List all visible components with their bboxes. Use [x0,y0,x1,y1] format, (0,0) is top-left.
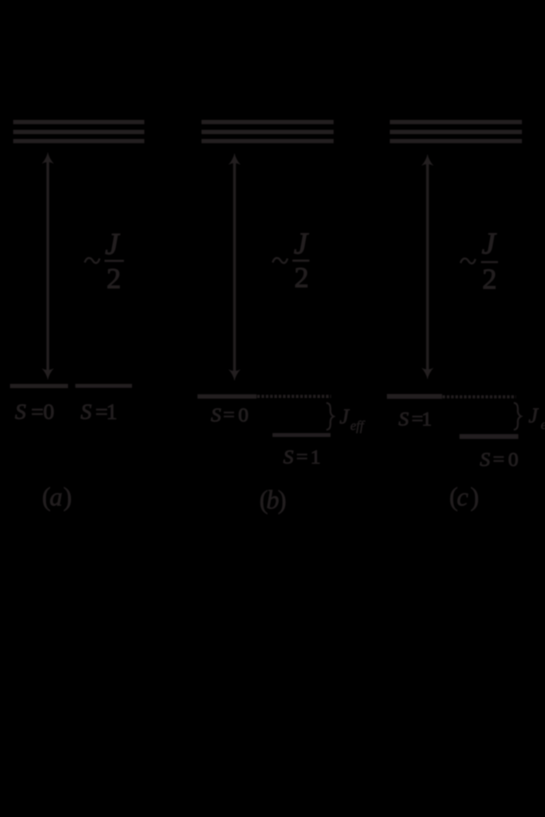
svg-text:S: S [15,399,26,424]
panel (b): text S = 1 [283,446,320,468]
svg-text:0: 0 [238,404,248,426]
panel (b): caption (b) [259,485,286,514]
svg-text:=: = [31,399,43,424]
svg-text:=: = [296,446,308,468]
svg-text:ef: ef [541,417,545,432]
svg-text:1: 1 [422,408,432,430]
panel (a): level S=1 [75,384,132,388]
svg-text:2: 2 [294,262,309,294]
panel (a): double-headed arrow [42,152,54,380]
panel (c): excited-state triplet levels [390,120,522,143]
panel (c): level S=1 [387,394,442,399]
svg-text:J: J [294,225,309,260]
panel (c): dotted extension of S=1 level [443,395,517,398]
panel (b): double-headed arrow [228,153,240,381]
svg-text:1: 1 [106,399,117,424]
panel (b): level S=1 [273,433,331,437]
panel (c): double-headed arrow [421,154,433,380]
panel (c): text S = 0 [480,449,518,471]
panel (b): level S=0 [198,394,257,398]
panel (c): label ~ J/2 [461,225,499,295]
panel (c): caption (c) [449,483,479,512]
svg-text:J: J [482,225,497,260]
panel (a): label ~ J/2 [85,226,124,295]
svg-text:S: S [211,404,221,426]
svg-text:2: 2 [482,264,497,296]
svg-text:=: = [223,404,235,426]
svg-text:2: 2 [107,263,122,295]
svg-text:1: 1 [310,446,320,468]
panel (c): text S = 1 [399,408,432,430]
panel (a): text S = 0 [15,399,54,424]
panel (a): text S = 1 [81,399,118,424]
svg-text:J: J [340,405,351,429]
svg-text:=: = [493,449,505,471]
panel (c): curly brace for Jeff [514,403,521,430]
svg-text:c: c [457,483,469,512]
panel (c): level S=0 [460,434,519,439]
svg-text:): ) [278,485,287,514]
svg-text:J: J [105,226,120,261]
panel (b): label ~ J/2 [273,225,310,294]
svg-text:S: S [283,446,293,468]
svg-text:S: S [81,399,92,424]
svg-text:0: 0 [508,449,518,471]
panel (b): excited-state triplet levels [202,120,334,143]
panel (a): caption (a) [42,483,72,512]
panel (b): curly brace for Jeff [326,403,333,430]
panel (a): excited-state triplet levels [13,120,144,143]
svg-text:): ) [470,483,479,512]
svg-text:eff: eff [350,418,366,433]
svg-text:J: J [529,404,540,428]
panel (b): dotted extension of S=0 level [257,395,331,398]
svg-text:S: S [399,408,409,430]
panel (c): label J_eff (clipped at right edge) [529,404,545,433]
svg-text:): ) [63,483,72,512]
panel (a): level S=0 [10,384,68,388]
svg-text:a: a [50,483,63,512]
panel (b): label J_eff [340,405,366,434]
svg-text:S: S [480,449,490,471]
svg-text:0: 0 [43,399,54,424]
panel (b): text S = 0 [211,404,249,426]
